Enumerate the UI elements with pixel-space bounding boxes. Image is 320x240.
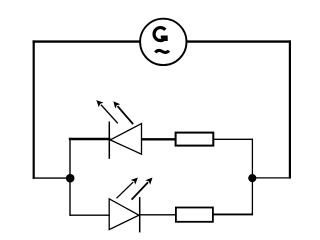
wire right outer vertical — [289, 40, 291, 178]
node left junction — [66, 174, 75, 183]
wire inner right vertical — [251, 139, 253, 216]
wire upper branch right — [214, 138, 254, 140]
wire upper branch left — [69, 138, 111, 140]
LED D1 — [96, 100, 141, 159]
wire lower branch right — [213, 213, 253, 215]
wire top horizontal — [33, 40, 292, 42]
resistor R2 — [176, 208, 213, 222]
wire lower branch mid — [140, 214, 176, 216]
wire left outer vertical — [33, 40, 35, 178]
wire right junction horizontal — [252, 177, 290, 179]
wire left junction horizontal — [33, 177, 70, 179]
wire inner left vertical — [69, 138, 71, 216]
resistor R1 — [176, 133, 214, 146]
wire lower branch left — [69, 214, 109, 216]
LED D2 — [109, 178, 152, 233]
node right junction — [248, 174, 256, 182]
generator G1 — [140, 19, 186, 65]
wire upper branch mid — [141, 138, 176, 140]
